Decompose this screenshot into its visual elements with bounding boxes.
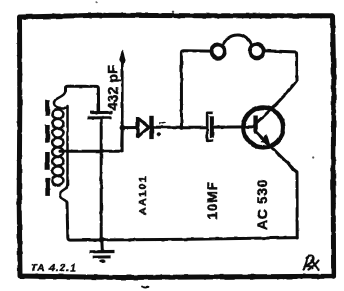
headphones LS1: right earpiece	[250, 44, 264, 58]
transistor Q1 base bar	[253, 116, 257, 134]
variable capacitor arrow (points up)	[121, 64, 124, 151]
wire: coil tap to arrow line	[60, 130, 122, 151]
node junction at diode anode wire	[120, 125, 126, 131]
svg-text:AC 530: AC 530	[254, 179, 270, 230]
wire: left headphone down to main wire	[181, 51, 211, 128]
svg-text:AA101: AA101	[137, 175, 149, 215]
inductor L1 coil loops	[52, 90, 67, 203]
wire: coil top to variable capacitor	[66, 86, 99, 111]
wire: junction to diode	[122, 126, 137, 129]
ground symbol	[100, 240, 104, 251]
transistor Q1 emitter arrow	[262, 135, 269, 143]
scan speckles	[312, 156, 314, 158]
svg-text:432 pF: 432 pF	[104, 65, 120, 111]
stray ink dot near diode	[157, 132, 161, 136]
bottom rail wire	[67, 203, 297, 240]
node junction with headphone left wire	[179, 125, 184, 130]
wire: C2 to transistor base	[214, 125, 254, 128]
wire: C1 bottom plate down to ground rail	[100, 119, 103, 240]
wire: diode to capacitor C2	[154, 126, 207, 129]
svg-text:TA 4.2.1: TA 4.2.1	[30, 263, 78, 274]
signature Rx bottom right	[304, 255, 319, 270]
ferrite rod (dashed bar)	[45, 100, 50, 196]
ground node junction	[99, 237, 105, 243]
headphones LS1: left earpiece	[211, 45, 225, 59]
svg-text:10MF: 10MF	[205, 181, 220, 220]
transistor Q1 circle	[243, 108, 283, 148]
wire: right headphone to collector	[257, 51, 297, 123]
headphones LS1: headband arc	[223, 35, 252, 47]
capacitor C2 10MF (electrolytic)	[207, 113, 213, 141]
transistor Q1 emitter	[257, 133, 298, 239]
variable capacitor C1 432pF plates	[88, 112, 113, 118]
diode D1 AA101	[137, 117, 148, 138]
stray tick below bottom border	[143, 287, 149, 288]
